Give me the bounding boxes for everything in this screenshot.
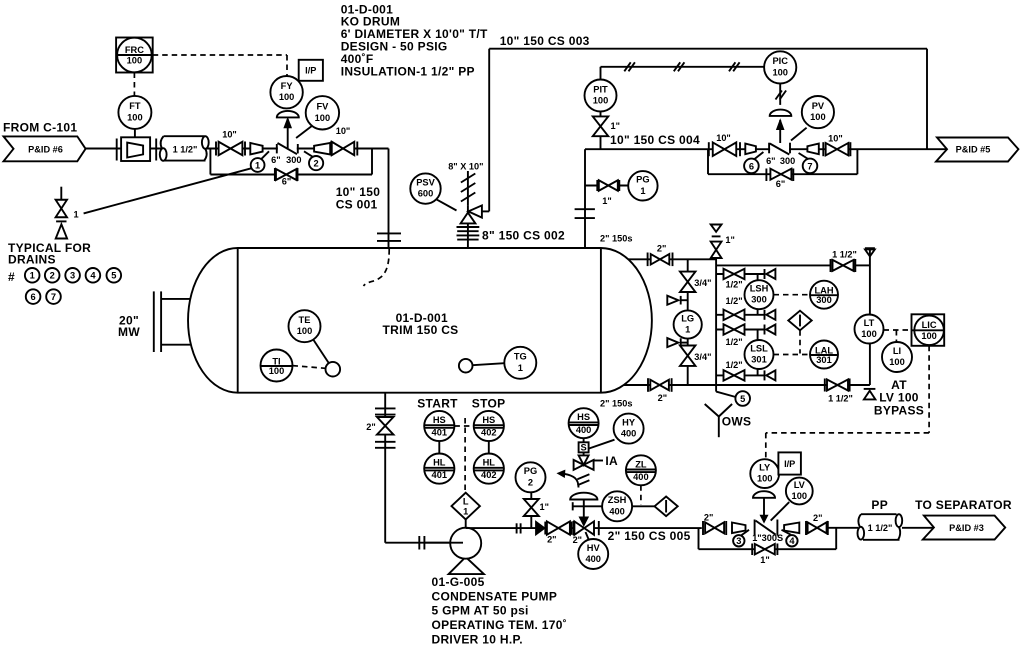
svg-text:HL: HL — [483, 458, 496, 468]
alarm LAL-301 — [774, 354, 809, 356]
flag: P&ID #3 to separator — [923, 516, 1005, 540]
wire: FV stem with up arrow — [287, 119, 289, 148]
svg-text:1: 1 — [463, 507, 468, 517]
svg-text:LG: LG — [681, 313, 694, 323]
svg-text:10" 150 CS 003: 10" 150 CS 003 — [500, 34, 590, 48]
svg-text:10": 10" — [336, 126, 351, 136]
flange pair below drain valve — [375, 441, 396, 443]
wire: pump discharge line CS 005 — [466, 527, 702, 529]
svg-text:400: 400 — [585, 554, 601, 564]
svg-text:10": 10" — [716, 133, 731, 143]
wire: HS to HL stems — [438, 441, 440, 453]
vent valve 1 inch at standpipe top — [711, 225, 722, 232]
flange pair on drum inlet nozzle — [377, 232, 401, 234]
drain plug below LT leg — [864, 388, 876, 390]
actuator diaphragm of HV-400 — [570, 493, 597, 500]
svg-text:FROM C-101: FROM C-101 — [3, 121, 77, 135]
svg-text:1: 1 — [30, 271, 35, 281]
reducer 10x6 — [745, 144, 756, 155]
wire: leader from drain 1 to bubble 1 — [84, 168, 252, 213]
check valve 2 inch — [536, 521, 546, 535]
globe valve 1 inch below PIT — [593, 116, 609, 136]
gate valve 6 inch on FV bypass — [274, 168, 276, 181]
svg-text:HS: HS — [482, 415, 495, 425]
svg-text:100: 100 — [757, 474, 773, 484]
svg-text:CONDENSATE PUMP: CONDENSATE PUMP — [432, 589, 558, 603]
svg-text:5: 5 — [740, 394, 745, 404]
svg-text:2": 2" — [704, 512, 713, 522]
svg-text:1: 1 — [74, 209, 79, 219]
relay HY-400 — [614, 414, 644, 444]
pipe spool 1 1/2 inch (swage nipple) — [162, 136, 206, 160]
svg-text:1: 1 — [640, 186, 645, 196]
instrument LT-100 — [855, 315, 884, 344]
svg-text:6": 6" — [776, 179, 785, 189]
svg-text:1": 1" — [611, 121, 620, 131]
converter box I/P for LY-100 — [778, 452, 801, 474]
node bubble 6 — [754, 152, 763, 159]
svg-text:2": 2" — [813, 513, 822, 523]
wire: electric signal PIT to PIC with slash marks — [600, 67, 602, 80]
control valve HV-400 — [573, 521, 575, 535]
svg-text:6": 6" — [282, 177, 291, 187]
svg-text:2: 2 — [528, 477, 533, 487]
svg-text:1/2": 1/2" — [726, 337, 743, 347]
svg-text:1 1/2": 1 1/2" — [868, 523, 893, 533]
wire: dashed internal inlet pipe inside drum — [364, 249, 390, 286]
svg-text:4: 4 — [90, 271, 96, 281]
svg-text:1 1/2": 1 1/2" — [828, 394, 853, 404]
wire: LSL row 4 tap — [757, 369, 759, 376]
drain valve symbol (typical detail) — [60, 187, 62, 200]
svg-text:100: 100 — [593, 96, 609, 106]
svg-text:TE: TE — [299, 315, 311, 325]
actuator diaphragm of PV-100 — [770, 110, 792, 116]
svg-text:LI: LI — [893, 346, 901, 356]
svg-text:FT: FT — [129, 101, 141, 111]
instrument LI-100 — [882, 342, 912, 372]
instrument TE-100 with thermowell — [313, 340, 329, 364]
svg-text:2": 2" — [573, 535, 582, 545]
wire: level gauge leg — [687, 259, 689, 385]
svg-text:2: 2 — [314, 159, 319, 169]
node bubble 7 — [799, 153, 809, 159]
svg-text:TO SEPARATOR: TO SEPARATOR — [915, 498, 1012, 512]
svg-text:10": 10" — [828, 134, 843, 144]
svg-text:300: 300 — [816, 295, 832, 305]
interlock diamond at ZSH — [632, 505, 654, 507]
svg-text:LAH: LAH — [814, 286, 833, 296]
svg-text:2": 2" — [658, 393, 667, 403]
svg-text:1": 1" — [725, 235, 734, 245]
svg-text:7: 7 — [51, 292, 56, 302]
control valve LV-100 body (1 inch 300S) — [756, 520, 777, 535]
svg-text:I/P: I/P — [305, 65, 316, 75]
manway 20 inch MW — [153, 291, 155, 352]
globe valve 1 inch on LV bypass — [751, 544, 753, 556]
instrument PG-1 pressure gauge — [628, 171, 657, 200]
instrument PSV-600 tag bubble — [410, 173, 440, 203]
position switch ZSH-400 — [572, 502, 574, 510]
svg-text:3/4": 3/4" — [694, 352, 711, 362]
wire: LV bypass — [698, 528, 700, 549]
svg-text:2" 150 CS 005: 2" 150 CS 005 — [608, 529, 691, 543]
pilot light HL-401 — [424, 454, 454, 484]
svg-text:100: 100 — [269, 366, 285, 376]
svg-text:100: 100 — [861, 329, 877, 339]
svg-text:1/2": 1/2" — [726, 280, 743, 290]
instrument LY-100 — [750, 459, 779, 488]
svg-text:PV: PV — [812, 101, 825, 111]
wire: LT vertical — [869, 248, 871, 385]
wire: HV stem with down arrow — [583, 500, 585, 518]
instrument TI-100 — [293, 366, 326, 369]
svg-text:100: 100 — [810, 112, 826, 122]
svg-text:100: 100 — [315, 113, 331, 123]
wire: leader to HV bubble — [586, 532, 590, 542]
instrument FT-100 — [118, 96, 151, 129]
svg-text:2": 2" — [547, 535, 556, 545]
interlock diamond (level trip) — [799, 330, 801, 353]
svg-text:FRC: FRC — [125, 45, 144, 55]
wire: LSL row 3 tap — [716, 329, 764, 331]
reducer 6x10 (downstream) — [314, 143, 330, 155]
svg-text:HL: HL — [433, 458, 446, 468]
globe valve 3/4 inch upper — [680, 272, 696, 292]
wire: feed line from P&ID #6 flag to FV station — [86, 148, 389, 150]
svg-text:P&ID #6: P&ID #6 — [28, 145, 63, 155]
svg-text:1"300S: 1"300S — [752, 533, 783, 543]
vent plug at LT bridle top — [865, 247, 875, 249]
level switch LSL-301 — [745, 340, 774, 369]
svg-text:2" 150s: 2" 150s — [600, 234, 632, 244]
svg-text:301: 301 — [751, 355, 767, 365]
svg-text:400: 400 — [576, 425, 592, 435]
svg-text:LIC: LIC — [922, 320, 937, 330]
pump 01-G-005 casing — [449, 557, 484, 574]
wire: PSV outlet up to flare line — [482, 210, 489, 212]
wire: drum bottom outlet to pump — [384, 393, 386, 543]
spring marks and fail arrow — [577, 474, 589, 479]
position light ZL-400 — [626, 455, 656, 485]
instrument TG-1 with well — [473, 363, 505, 365]
svg-text:#: # — [8, 270, 15, 284]
instrument HV-400 tag bubble — [578, 539, 608, 569]
wire: LV stem with down arrow — [763, 498, 765, 516]
instrument FRC-100 (shared display, square+circle) — [153, 54, 287, 56]
svg-text:P&ID #5: P&ID #5 — [956, 145, 991, 155]
svg-text:P&ID #3: P&ID #3 — [949, 523, 984, 533]
instrument PIT-100 — [600, 112, 602, 150]
solenoid box S — [583, 438, 585, 442]
wire: line to separator — [828, 527, 858, 529]
gauge cock lower — [667, 338, 678, 347]
svg-text:ZL: ZL — [635, 459, 647, 469]
relief valve PSV-600 inlet from drum with stack — [467, 205, 469, 247]
relief valve PSV-600 body — [461, 213, 476, 224]
wire: FT to flow element — [134, 129, 136, 146]
flange pair at pump suction — [418, 536, 420, 550]
svg-text:PP: PP — [871, 498, 888, 512]
svg-text:LV: LV — [794, 480, 806, 490]
svg-text:HY: HY — [622, 417, 636, 427]
svg-text:300: 300 — [751, 295, 767, 305]
svg-text:300: 300 — [780, 156, 795, 166]
svg-text:10": 10" — [222, 129, 237, 139]
wire: FV station bypass — [209, 149, 211, 175]
svg-text:HS: HS — [433, 415, 446, 425]
svg-text:2: 2 — [50, 271, 55, 281]
svg-text:PG: PG — [524, 466, 537, 476]
alarm LAH-300 — [774, 294, 809, 296]
svg-text:100: 100 — [127, 56, 143, 66]
svg-text:1": 1" — [602, 196, 611, 206]
svg-text:BYPASS: BYPASS — [874, 403, 924, 417]
instrument FY-100 — [270, 76, 302, 108]
svg-text:PG: PG — [636, 175, 649, 185]
svg-text:402: 402 — [481, 428, 497, 438]
control valve PV-100 body (6 inch 300) — [770, 143, 789, 155]
svg-text:5: 5 — [111, 271, 116, 281]
hand switch HS-401 — [424, 411, 454, 441]
svg-text:S: S — [580, 443, 586, 453]
svg-text:CS 001: CS 001 — [336, 197, 378, 211]
svg-text:100: 100 — [297, 326, 313, 336]
svg-text:1/2": 1/2" — [726, 360, 743, 370]
reducer 6x10 — [807, 144, 818, 155]
svg-text:2" 150s: 2" 150s — [600, 398, 632, 408]
svg-text:400: 400 — [621, 429, 637, 439]
node bubble 5 and OWS funnel — [716, 392, 736, 397]
svg-text:PIT: PIT — [593, 84, 608, 94]
svg-text:DRAINS: DRAINS — [8, 252, 56, 266]
actuator diaphragm of LV-100 — [753, 491, 775, 498]
svg-text:TG: TG — [514, 352, 527, 362]
wire: PV stem with up arrow — [779, 120, 781, 149]
svg-text:300: 300 — [286, 155, 301, 165]
svg-text:6": 6" — [766, 156, 775, 166]
vessel 01-D-001 KO drum shell — [188, 248, 652, 393]
reducer 2x1 — [732, 523, 746, 534]
svg-text:INSULATION-1 1/2" PP: INSULATION-1 1/2" PP — [341, 64, 475, 78]
node bubble 3 — [741, 530, 749, 536]
pilot light HL-402 — [474, 454, 504, 484]
pressure gauge branch: gate valve 1 inch — [585, 185, 628, 187]
svg-text:TI: TI — [272, 356, 280, 366]
vessel seam lines — [237, 248, 239, 393]
wire: CS 004 header to PV station — [585, 148, 947, 150]
svg-text:3: 3 — [736, 536, 741, 546]
svg-text:LSL: LSL — [750, 343, 768, 353]
svg-text:1/2": 1/2" — [726, 296, 743, 306]
svg-text:7: 7 — [807, 161, 812, 171]
reducer 1x2 — [784, 523, 799, 534]
svg-text:LT: LT — [864, 318, 875, 328]
svg-text:PIC: PIC — [772, 56, 788, 66]
converter box I/P for FY-100 — [299, 60, 323, 81]
instrument LV-100 tag bubble — [786, 478, 813, 505]
svg-text:1 1/2": 1 1/2" — [173, 144, 198, 154]
svg-text:1": 1" — [760, 555, 769, 565]
flange pair below drum — [375, 407, 396, 409]
wire: 2 inch bottom tap from drum — [624, 384, 870, 386]
svg-text:401: 401 — [432, 470, 448, 480]
svg-text:HV: HV — [587, 543, 601, 553]
svg-text:LY: LY — [759, 462, 771, 472]
svg-text:01-G-005: 01-G-005 — [432, 575, 485, 589]
svg-text:400: 400 — [609, 506, 625, 516]
3-way valve IA — [583, 452, 585, 460]
svg-text:2": 2" — [366, 422, 375, 432]
wire: PV bypass — [707, 149, 709, 174]
svg-text:HS: HS — [577, 412, 590, 422]
svg-text:1: 1 — [518, 363, 523, 373]
svg-text:100: 100 — [792, 491, 808, 501]
svg-text:STOP: STOP — [472, 397, 506, 411]
wire: signal PIC to PV actuator — [779, 84, 781, 105]
wire: LSH row 2 tap — [757, 309, 759, 315]
svg-text:OPERATING TEM. 170˚: OPERATING TEM. 170˚ — [432, 618, 568, 632]
svg-text:3/4": 3/4" — [694, 278, 711, 288]
node thermowell — [326, 362, 341, 377]
control valve FV-100 body (6 inch 300) — [278, 143, 297, 155]
wire: leader FV bubble to valve — [296, 126, 312, 138]
wire: level standpipe — [715, 258, 717, 392]
svg-text:401: 401 — [432, 428, 448, 438]
hand switch HS-402 — [474, 411, 504, 441]
svg-text:LAL: LAL — [815, 345, 833, 355]
svg-text:1: 1 — [255, 160, 260, 170]
flow element FE (wedge meter) with flanges — [116, 139, 118, 161]
svg-text:L: L — [463, 497, 469, 507]
instrument PG-2 — [516, 462, 546, 492]
svg-text:400: 400 — [633, 472, 649, 482]
svg-text:402: 402 — [481, 470, 497, 480]
wire: drum inlet drop from FV station — [388, 149, 390, 249]
level switch LSH-300 — [745, 280, 774, 309]
svg-text:TRIM 150 CS: TRIM 150 CS — [383, 323, 459, 337]
reducer 10x6 — [250, 143, 262, 155]
node bubble 1 (drain callout) — [262, 151, 270, 159]
wire: dashed FRC to FT — [133, 73, 135, 96]
pressure gauge PG-2 branch — [530, 516, 532, 528]
gauge cock upper — [667, 296, 678, 305]
svg-text:6: 6 — [31, 292, 36, 302]
svg-text:1": 1" — [540, 502, 549, 512]
instrument PIC-100 — [764, 51, 796, 83]
wire: flare line CS 003 to right edge and down to P&ID #5 — [489, 48, 927, 50]
wire: LSH row 1 tap — [716, 273, 764, 275]
flag: FROM C-101 / P&ID #6 — [4, 136, 86, 161]
instrument FV-100 tag bubble — [306, 96, 339, 129]
svg-text:FV: FV — [316, 102, 329, 112]
spring marks on PSV — [461, 193, 475, 202]
svg-text:100: 100 — [127, 112, 143, 122]
svg-text:100: 100 — [889, 357, 905, 367]
svg-text:START: START — [417, 397, 458, 411]
svg-text:301: 301 — [816, 355, 832, 365]
svg-text:100: 100 — [921, 331, 937, 341]
svg-text:ZSH: ZSH — [608, 495, 627, 505]
svg-text:8" X 10": 8" X 10" — [448, 161, 483, 171]
gate valve 2 inch drum outlet — [377, 417, 394, 435]
wire: dashed LIC output to LY-100 — [928, 346, 930, 433]
svg-text:1: 1 — [685, 325, 690, 335]
gate valve 2 inch discharge — [547, 521, 570, 534]
actuator diaphragm of FV-100 — [277, 111, 299, 118]
svg-text:3: 3 — [70, 271, 75, 281]
node drain list bubbles 1-7 — [25, 268, 40, 283]
wire: 2 inch top tap from drum — [628, 258, 716, 260]
svg-text:6": 6" — [271, 155, 280, 165]
flange pair on drum vapor nozzle — [575, 208, 595, 210]
level gauge LG-1 — [674, 310, 702, 338]
flange pair pump discharge — [516, 523, 518, 533]
svg-text:100: 100 — [279, 92, 295, 102]
svg-text:600: 600 — [418, 189, 434, 199]
svg-text:8" 150 CS 002: 8" 150 CS 002 — [482, 229, 565, 243]
svg-text:DRIVER 10 H.P.: DRIVER 10 H.P. — [432, 632, 523, 646]
instrument PV-100 tag bubble — [802, 96, 834, 128]
globe valve 3/4 inch lower — [680, 346, 696, 366]
svg-text:LSH: LSH — [750, 284, 769, 294]
svg-text:4: 4 — [789, 536, 795, 546]
interlock diamond L-1 — [454, 425, 473, 427]
svg-text:2": 2" — [657, 243, 666, 253]
svg-text:6: 6 — [749, 161, 754, 171]
hand switch HS-400 — [569, 408, 599, 438]
svg-text:OWS: OWS — [722, 414, 752, 428]
svg-text:5 GPM AT 50 psi: 5 GPM AT 50 psi — [432, 604, 529, 618]
svg-text:10" 150 CS 004: 10" 150 CS 004 — [610, 133, 700, 147]
node bubble 2 (drain callout) — [304, 151, 313, 157]
svg-text:FY: FY — [281, 81, 294, 91]
controller LIC-100 (square+circle) — [912, 314, 945, 346]
flag: P&ID #5 outgoing — [936, 138, 1018, 162]
wire: dashed LT to LIC and LI — [884, 329, 912, 331]
svg-text:PSV: PSV — [416, 177, 435, 187]
svg-text:100: 100 — [772, 67, 788, 77]
node bubble 4 — [782, 530, 792, 535]
svg-text:IA: IA — [605, 454, 618, 468]
svg-text:1 1/2": 1 1/2" — [832, 250, 857, 260]
svg-text:MW: MW — [118, 325, 140, 339]
svg-text:I/P: I/P — [784, 459, 795, 469]
gate valve 6 inch on PV bypass — [765, 169, 767, 182]
wire: vapor outlet CS 004 from drum top — [584, 149, 586, 248]
